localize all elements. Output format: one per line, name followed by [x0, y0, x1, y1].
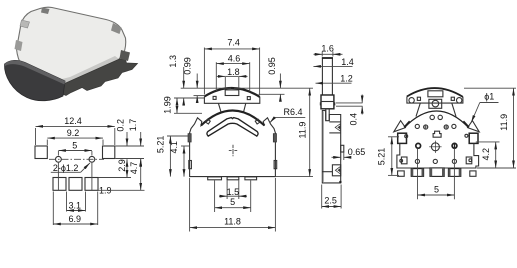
svg-text:1.6: 1.6	[321, 44, 334, 54]
svg-text:4.7: 4.7	[129, 162, 139, 175]
svg-text:4.6: 4.6	[228, 54, 241, 64]
svg-text:1.2: 1.2	[340, 73, 353, 83]
svg-text:1.5: 1.5	[227, 187, 240, 197]
svg-text:11.9: 11.9	[499, 114, 509, 131]
svg-text:ϕ1: ϕ1	[484, 91, 494, 101]
svg-text:1.3: 1.3	[168, 55, 178, 68]
svg-text:1.7: 1.7	[128, 119, 138, 132]
svg-text:9.2: 9.2	[67, 128, 80, 138]
svg-text:4.2: 4.2	[481, 148, 491, 161]
svg-text:7.4: 7.4	[227, 38, 240, 48]
svg-text:11.8: 11.8	[224, 216, 241, 226]
svg-text:2.5: 2.5	[324, 195, 337, 205]
svg-text:0.65: 0.65	[348, 147, 366, 157]
svg-text:0.2: 0.2	[116, 119, 126, 132]
svg-text:5.21: 5.21	[155, 136, 165, 154]
svg-text:5.21: 5.21	[377, 148, 387, 166]
svg-text:R6.4: R6.4	[283, 107, 302, 117]
svg-text:3.1: 3.1	[68, 201, 81, 211]
svg-text:11.9: 11.9	[298, 122, 308, 139]
svg-text:12.4: 12.4	[64, 116, 82, 126]
svg-text:5: 5	[72, 140, 77, 150]
svg-text:0.4: 0.4	[348, 113, 358, 126]
svg-text:6.9: 6.9	[68, 214, 81, 224]
svg-text:0.95: 0.95	[267, 57, 277, 75]
svg-text:1.4: 1.4	[341, 57, 354, 67]
svg-text:1.8: 1.8	[227, 67, 240, 77]
svg-text:5: 5	[434, 184, 439, 194]
svg-text:5: 5	[230, 197, 235, 207]
svg-text:2-ϕ1.2: 2-ϕ1.2	[53, 163, 79, 173]
svg-text:4.1: 4.1	[169, 141, 179, 154]
svg-text:1.99: 1.99	[163, 96, 173, 114]
svg-text:0.99: 0.99	[182, 57, 192, 75]
svg-text:2.9: 2.9	[117, 159, 127, 172]
